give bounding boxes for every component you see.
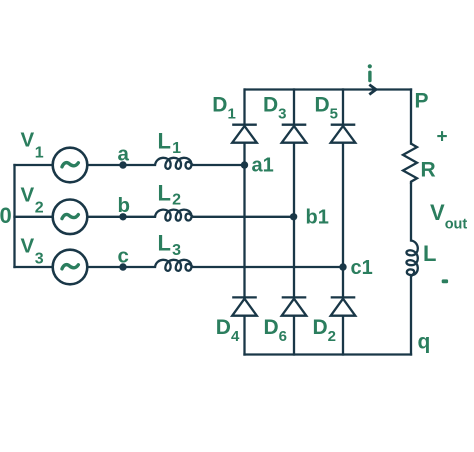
- node a (dot): [119, 161, 126, 168]
- wire bottom bus: [245, 353, 412, 355]
- wire row c: inductor L3 to node c1: [194, 266, 344, 268]
- wire right rail top: P to resistor R: [410, 90, 412, 144]
- label - (minus): [442, 279, 448, 283]
- svg-text:b1: b1: [306, 207, 329, 229]
- wire right rail bottom: inductor L to node q: [410, 277, 412, 355]
- diode D3: [282, 125, 307, 143]
- wire row b: rail to source V2: [15, 216, 53, 218]
- svg-text:q: q: [418, 330, 431, 353]
- svg-text:0: 0: [0, 203, 12, 228]
- wire column 2 lower (D6 to bottom bus): [293, 316, 295, 355]
- svg-text:D1: D1: [212, 93, 236, 122]
- label i: [368, 64, 372, 82]
- wire column 3 lower (D2 to bottom bus): [342, 316, 344, 355]
- svg-text:L: L: [423, 241, 436, 266]
- current arrow i: [369, 85, 376, 95]
- inductor L2: [155, 210, 193, 221]
- node b (dot): [119, 213, 126, 220]
- wire row c: rail to source V3: [15, 266, 53, 268]
- svg-text:D6: D6: [264, 316, 288, 345]
- node b1 (dot): [290, 213, 297, 220]
- diode D1: [232, 125, 257, 143]
- svg-text:V2: V2: [21, 184, 44, 217]
- svg-text:Vout: Vout: [430, 200, 467, 233]
- wire row b: source V2 to inductor L2: [87, 216, 155, 218]
- wire left neutral rail: [13, 165, 15, 267]
- wire row c: source V3 to inductor L3: [87, 266, 155, 268]
- wire column 2 upper (top bus to D3): [293, 90, 295, 124]
- wire column 2 middle (D3 through b1 to D6): [293, 143, 295, 297]
- voltage source V3: [53, 250, 88, 285]
- wire top bus: [245, 88, 411, 90]
- wire right rail middle: resistor R to inductor L: [410, 184, 412, 241]
- node c1 (dot): [339, 263, 346, 270]
- svg-text:R: R: [421, 159, 436, 182]
- wire row a: inductor L1 to node a1: [194, 164, 245, 166]
- svg-text:c1: c1: [351, 257, 373, 279]
- voltage source V1: [53, 148, 88, 183]
- svg-text:D5: D5: [315, 93, 339, 122]
- wire column 3 middle (D5 through c1 to D2): [342, 143, 344, 297]
- voltage source V2: [53, 200, 88, 235]
- node c (dot): [119, 263, 126, 270]
- svg-text:L3: L3: [158, 231, 182, 259]
- node a1 (dot): [241, 161, 248, 168]
- diode D2: [331, 297, 356, 315]
- svg-text:c: c: [118, 244, 129, 267]
- svg-text:a: a: [118, 142, 130, 165]
- svg-text:V1: V1: [21, 129, 44, 162]
- svg-text:P: P: [415, 89, 429, 112]
- wire row b: inductor L2 to node b1: [194, 216, 294, 218]
- wire row a: source V1 to inductor L1: [87, 164, 155, 166]
- wire column 1 lower (D4 to bottom bus): [243, 316, 245, 355]
- resistor R: [403, 144, 417, 184]
- svg-text:L2: L2: [158, 180, 182, 208]
- svg-text:+: +: [437, 127, 448, 148]
- wire column 3 upper (top bus to D5): [342, 90, 344, 124]
- inductor L3: [155, 260, 193, 271]
- diode D5: [331, 125, 356, 143]
- inductor L1: [155, 158, 193, 169]
- svg-text:a1: a1: [252, 155, 274, 177]
- diode D6: [282, 297, 307, 315]
- inductor L (load): [406, 241, 417, 277]
- svg-text:D3: D3: [263, 93, 287, 122]
- svg-text:b: b: [118, 194, 131, 217]
- svg-text:V3: V3: [21, 235, 44, 268]
- wire column 1 middle (D1 through a1 to D4): [243, 143, 245, 297]
- svg-text:D2: D2: [313, 316, 337, 345]
- svg-text:L1: L1: [158, 129, 182, 157]
- wire column 1 upper (top bus to D1): [243, 90, 245, 124]
- wire row a: rail to source V1: [15, 164, 53, 166]
- svg-text:D4: D4: [216, 316, 240, 345]
- diode D4: [232, 297, 257, 315]
